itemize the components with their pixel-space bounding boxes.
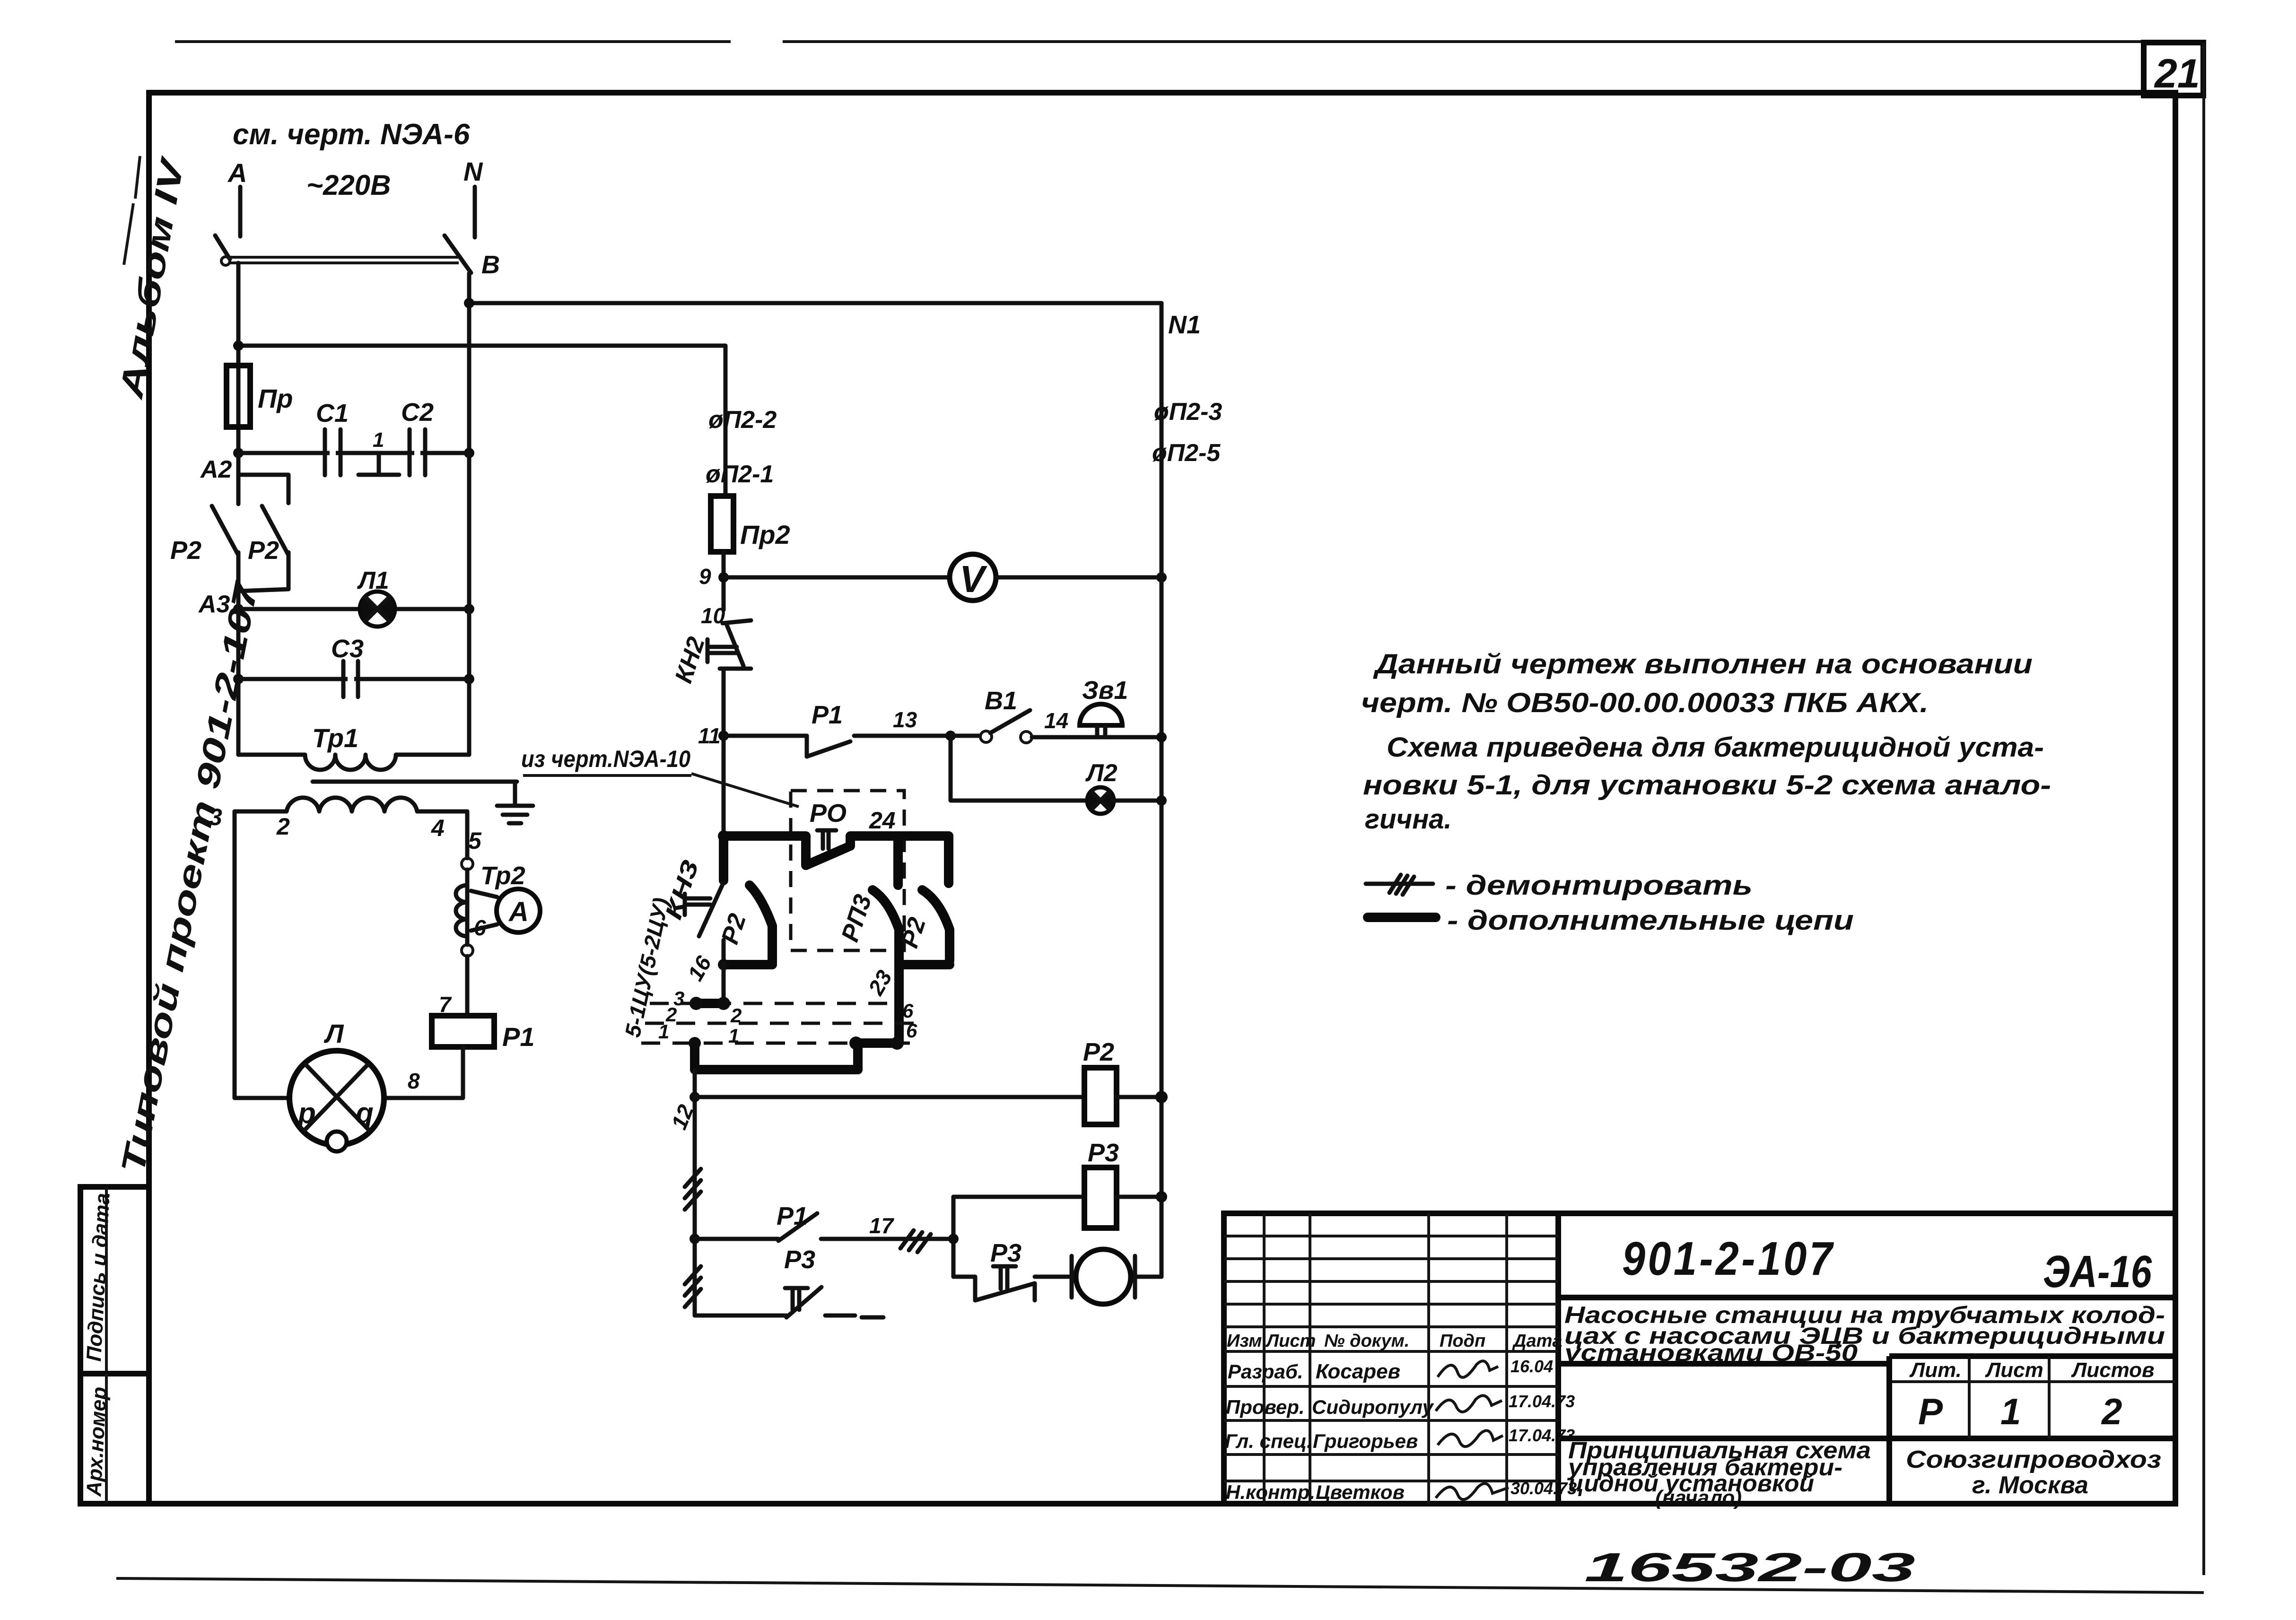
wire row P3 coil — [953, 1195, 1084, 1199]
demontage hatch on wire 17 — [900, 1230, 931, 1252]
svg-text:см. черт. NЭА-6: см. черт. NЭА-6 — [233, 118, 470, 151]
transformer Tr1 primary — [238, 755, 469, 770]
svg-text:9: 9 — [699, 564, 711, 589]
wire bottom left — [235, 1096, 289, 1100]
connector dashed row 3 — [641, 1042, 917, 1045]
legend additional symbol — [1368, 913, 1436, 922]
thick bus left riser — [690, 1043, 699, 1070]
svg-text:Р2: Р2 — [1083, 1038, 1114, 1066]
left table / right part divider — [1555, 1213, 1561, 1504]
contact P2 left — [212, 453, 238, 610]
outer bottom trim line — [116, 1578, 2204, 1593]
svg-text:2: 2 — [730, 1004, 742, 1027]
node dot N-641 — [464, 298, 474, 308]
svg-text:øП2-1: øП2-1 — [706, 461, 774, 488]
svg-text:Сидиропулу: Сидиропулу — [1312, 1396, 1435, 1418]
svg-text:КН2: КН2 — [670, 634, 710, 687]
ground at node 1 — [377, 453, 381, 473]
svg-text:Р1: Р1 — [812, 701, 843, 729]
switch B blade right — [445, 235, 471, 273]
relay coil P3 — [1084, 1167, 1117, 1228]
svg-text:N1: N1 — [1168, 311, 1201, 339]
svg-text:Р3: Р3 — [784, 1245, 815, 1274]
wire secondary left rail — [233, 811, 237, 1098]
switch B hinge circle — [221, 257, 230, 265]
svg-text:Л1: Л1 — [357, 567, 389, 594]
ground at core — [513, 782, 517, 804]
contact PO (thick chain node24 row) — [724, 836, 949, 865]
node dot C3 right — [464, 674, 474, 684]
wire row 12 — [695, 1095, 1084, 1099]
title block outer border — [1224, 1213, 2175, 1504]
wire thick rail 24 to KH3 — [719, 836, 728, 880]
contact P1 lower — [778, 1213, 817, 1241]
svg-text:Р3: Р3 — [990, 1239, 1021, 1267]
svg-text:30.04.73: 30.04.73 — [1510, 1479, 1577, 1498]
node dot 13 — [945, 731, 956, 741]
archive number box — [80, 1374, 149, 1504]
svg-text:А: А — [508, 897, 529, 927]
svg-text:V: V — [960, 558, 987, 600]
main frame border — [149, 93, 2175, 1504]
rule under object name — [1558, 1361, 1889, 1367]
wire row C3 — [238, 677, 469, 681]
svg-text:5: 5 — [468, 827, 482, 854]
contact P3 motor branch — [953, 1277, 1069, 1300]
wire P2 coil to rail — [1117, 1095, 1161, 1099]
wire lamp L2 to rail — [1114, 799, 1161, 803]
svg-text:№ докум.: № докум. — [1324, 1331, 1409, 1351]
capacitor C1 — [325, 429, 340, 475]
svg-text:Пр: Пр — [258, 383, 293, 413]
wire node 9 to voltmeter — [724, 575, 950, 580]
wire row A2 — [238, 451, 469, 455]
wire row A3 — [238, 607, 469, 611]
contact P3 bottom actuator — [785, 1288, 808, 1310]
svg-text:1: 1 — [373, 428, 384, 452]
svg-text:Р1: Р1 — [777, 1202, 808, 1230]
CT top circle — [462, 858, 473, 870]
svg-text:3: 3 — [209, 804, 222, 830]
svg-text:РО: РО — [810, 799, 847, 827]
svg-text:черт. № ОВ50-00.00.00033 ПКБ: черт. № ОВ50-00.00.00033 ПКБ АКХ. — [1361, 688, 1929, 718]
transformer Tr1 secondary — [235, 798, 467, 811]
wire rail 16 to connector — [722, 965, 726, 1003]
CT bar — [465, 870, 470, 945]
svg-text:4: 4 — [431, 815, 445, 841]
connector dashed row 1 — [645, 1022, 916, 1025]
svg-text:11: 11 — [698, 723, 721, 748]
svg-text:Цветков: Цветков — [1316, 1481, 1405, 1503]
svg-text:14: 14 — [1044, 708, 1068, 733]
contact P2 parallel (thick) — [724, 885, 772, 965]
motor — [1076, 1249, 1131, 1304]
svg-text:Дата: Дата — [1512, 1331, 1563, 1351]
connector dashed row 2 — [650, 1002, 899, 1005]
svg-text:6: 6 — [902, 1000, 914, 1022]
svg-text:2: 2 — [2101, 1391, 2122, 1432]
svg-text:Лит.: Лит. — [1909, 1359, 1962, 1382]
node dot P2-rail — [1155, 1091, 1168, 1103]
wire A2 branch to second contact — [238, 475, 288, 503]
wire CT to relay — [465, 956, 470, 1016]
svg-text:2: 2 — [276, 813, 290, 840]
svg-text:Тр2: Тр2 — [480, 862, 525, 890]
svg-text:Гл. спец.: Гл. спец. — [1225, 1430, 1312, 1452]
node dot bell-rail — [1156, 732, 1167, 742]
button KH3 actuator — [685, 894, 710, 915]
node dot A3-right — [464, 604, 474, 614]
svg-text:новки 5-1, для установки 5-2 с: новки 5-1, для установки 5-2 схема анало… — [1363, 770, 2051, 801]
wire node 11 row — [724, 734, 807, 738]
wire row 17 right — [821, 1237, 953, 1241]
wire riser to P3 coil row — [952, 1197, 956, 1277]
terminal stub N — [473, 187, 477, 237]
svg-text:С1: С1 — [316, 399, 349, 427]
wire KH2 rail to node 24 — [722, 736, 726, 836]
svg-text:~220В: ~220В — [306, 169, 391, 201]
album underline — [124, 156, 140, 265]
node dot A2 — [233, 448, 244, 458]
svg-text:А: А — [227, 158, 247, 188]
ammeter connecting lines — [471, 891, 497, 931]
svg-text:Р2: Р2 — [716, 910, 751, 947]
svg-text:13: 13 — [893, 707, 917, 732]
svg-text:Р2: Р2 — [248, 536, 279, 565]
svg-text:Типовой проект 901-2-107: Типовой проект 901-2-107 — [114, 578, 265, 1176]
node dot 17-row — [690, 1234, 700, 1244]
left table verticals — [1264, 1213, 1507, 1504]
svg-text:(начало): (начало) — [1655, 1486, 1742, 1509]
svg-text:Лист: Лист — [1265, 1331, 1316, 1351]
svg-text:Р2: Р2 — [170, 536, 201, 565]
wire secondary right down to CT — [465, 811, 470, 858]
svg-text:Р: Р — [1918, 1391, 1943, 1432]
relay coil P2 — [1084, 1068, 1117, 1124]
svg-text:24: 24 — [869, 807, 896, 834]
wire left rail mid — [236, 609, 241, 755]
svg-text:16532-03: 16532-03 — [1584, 1545, 1915, 1590]
svg-text:23: 23 — [863, 966, 897, 1000]
demontage dashes — [825, 1315, 883, 1317]
left table thin rows — [1224, 1236, 1558, 1327]
svg-text:С2: С2 — [401, 398, 434, 427]
fuse Pr — [227, 366, 250, 427]
svg-text:Тр1: Тр1 — [312, 723, 358, 753]
svg-text:Л2: Л2 — [1085, 759, 1117, 787]
lamp L (bactericidal) — [289, 1051, 384, 1151]
contact P3 motor actuator — [993, 1266, 1016, 1289]
node dot P3-rail — [1156, 1191, 1167, 1202]
svg-text:16.04: 16.04 — [1510, 1357, 1553, 1376]
transformer Tr1 core — [313, 780, 517, 784]
transformer Tr2 winding — [456, 885, 467, 936]
switch B1 — [951, 734, 980, 738]
node dot 9-rail-right — [1156, 572, 1167, 583]
wire neutral rail upper — [467, 273, 471, 453]
svg-text:ЭА-16: ЭА-16 — [2043, 1246, 2152, 1297]
svg-text:В1: В1 — [985, 687, 1017, 715]
CT bottom circle — [462, 945, 473, 956]
svg-text:Изм: Изм — [1227, 1331, 1262, 1351]
outer top trim line — [175, 40, 2144, 43]
svg-text:Лист: Лист — [1985, 1359, 2043, 1382]
svg-text:6: 6 — [906, 1019, 917, 1042]
node dot A2-right — [464, 448, 474, 458]
ammeter A — [497, 889, 540, 932]
button KH2 contact — [720, 620, 751, 736]
svg-text:Данный чертеж выполнен на: Данный чертеж выполнен на основании — [1372, 649, 2033, 679]
svg-text:из черт.NЭА-10: из черт.NЭА-10 — [521, 746, 690, 772]
contact P3 bottom — [786, 1287, 821, 1317]
svg-text:1: 1 — [2000, 1391, 2021, 1432]
svg-text:21: 21 — [2154, 51, 2200, 96]
wire voltmeter to N1 rail — [996, 575, 1161, 580]
svg-text:Разраб.: Разраб. — [1228, 1360, 1303, 1383]
fuse Pr2 — [711, 496, 733, 552]
svg-text:øП2-3: øП2-3 — [1154, 398, 1222, 426]
rule under project number — [1558, 1295, 2175, 1300]
wire P3 coil to rail — [1117, 1195, 1161, 1199]
svg-text:16: 16 — [683, 951, 716, 985]
legend demount symbol — [1366, 882, 1433, 886]
wire relay to bottom — [384, 1047, 463, 1098]
thick bus — [695, 1065, 858, 1074]
svg-text:Косарев: Косарев — [1316, 1360, 1400, 1383]
svg-text:г. Москва: г. Москва — [1972, 1472, 2088, 1499]
lit-list box lines — [1889, 1353, 2175, 1359]
wire branch to lamp L2 — [951, 736, 1088, 801]
wire to N1 — [469, 301, 1161, 305]
svg-text:Л: Л — [323, 1019, 344, 1048]
node dot 16 — [718, 959, 729, 970]
svg-text:N: N — [463, 157, 483, 186]
contact P2 right — [238, 506, 288, 591]
lamp L2 — [1087, 787, 1114, 814]
node dot 11 — [718, 731, 729, 741]
contact PO actuator — [817, 830, 836, 849]
outer right trim line — [2202, 43, 2205, 1575]
voltmeter V — [950, 554, 996, 601]
svg-text:А2: А2 — [200, 456, 232, 483]
wire P2-2 drop rail — [724, 346, 728, 496]
sheet number box — [2144, 43, 2203, 96]
svg-text:А3: А3 — [198, 591, 230, 618]
svg-text:С3: С3 — [331, 635, 364, 663]
svg-text:17: 17 — [869, 1213, 895, 1238]
wire N1 rail — [1160, 303, 1164, 1277]
button KH3 contact — [699, 882, 724, 965]
svg-text:17.04.73: 17.04.73 — [1509, 1426, 1575, 1445]
node dot 9 — [718, 572, 729, 583]
svg-text:17.04.73: 17.04.73 — [1509, 1392, 1575, 1411]
lamp L1 — [360, 592, 395, 627]
switch B blade left — [215, 235, 230, 259]
demontage hatch on left rail upper — [685, 1169, 701, 1210]
dashed box PO — [791, 791, 904, 950]
wire motor to rail — [1137, 1275, 1161, 1279]
svg-text:8: 8 — [408, 1069, 420, 1093]
signature-date box — [80, 1187, 149, 1374]
wire bottom P3 row — [695, 1314, 786, 1318]
svg-text:øП2-2: øП2-2 — [708, 406, 777, 434]
svg-text:Зв1: Зв1 — [1082, 676, 1128, 705]
svg-text:гична.: гична. — [1365, 804, 1452, 835]
svg-text:q: q — [356, 1097, 374, 1130]
svg-text:Союзгипроводхоз: Союзгипроводхоз — [1906, 1446, 2161, 1473]
contact RP3 (thick) — [873, 836, 899, 1043]
node dot A3 — [233, 604, 244, 614]
node dot L2-rail — [1156, 795, 1167, 806]
svg-text:РП3: РП3 — [836, 891, 877, 945]
wire phase rail upper — [236, 263, 241, 453]
svg-text:Пр2: Пр2 — [740, 520, 790, 549]
svg-text:Р3: Р3 — [1088, 1139, 1119, 1167]
wire fuse to node 9 — [722, 552, 726, 610]
svg-text:Схема приведена для бактери: Схема приведена для бактерицидной уста- — [1387, 732, 2044, 763]
jumper row3 — [856, 1038, 897, 1048]
svg-text:øП2-5: øП2-5 — [1152, 439, 1221, 467]
svg-text:- демонтировать: - демонтировать — [1445, 870, 1753, 901]
svg-text:Альбом IV: Альбом IV — [112, 153, 191, 402]
node dot 24-rail — [718, 830, 729, 842]
svg-text:Подп: Подп — [1440, 1331, 1485, 1351]
svg-text:Листов: Листов — [2071, 1359, 2155, 1382]
terminal stub A — [238, 187, 243, 236]
left table header row line — [1224, 1350, 1558, 1353]
contact P2 right (thick) — [903, 890, 950, 965]
bell Zv1 — [1080, 704, 1122, 725]
wire row 17 left — [695, 1237, 778, 1241]
thick link jumper to bus — [853, 1043, 863, 1070]
thick hook right of 24 — [944, 836, 953, 883]
svg-text:Р1: Р1 — [502, 1022, 535, 1052]
capacitor C3 — [343, 661, 358, 697]
switch B linkage double line — [230, 257, 459, 263]
left table signature rows — [1224, 1386, 1558, 1481]
demontage hatch on left rail lower — [685, 1266, 701, 1307]
svg-text:3: 3 — [673, 987, 684, 1010]
node dot C3 left — [233, 674, 244, 684]
wire right rail mid — [467, 453, 471, 755]
wire left lower rail — [693, 1070, 697, 1315]
node dot 12 — [690, 1092, 700, 1102]
jumper row2 — [696, 999, 724, 1008]
svg-text:Провер.: Провер. — [1226, 1396, 1305, 1418]
contact P1 — [807, 736, 951, 757]
svg-text:Подпись и дата: Подпись и дата — [82, 1193, 114, 1362]
svg-text:- дополнительные цепи: - дополнительные цепи — [1447, 905, 1854, 936]
svg-text:р: р — [297, 1097, 316, 1130]
button KH2 actuator — [707, 639, 737, 662]
svg-text:Н.контр.: Н.контр. — [1226, 1481, 1315, 1503]
node dot 17 right — [948, 1234, 959, 1244]
svg-text:901-2-107: 901-2-107 — [1622, 1232, 1835, 1285]
svg-text:1: 1 — [728, 1025, 739, 1047]
svg-text:Григорьев: Григорьев — [1313, 1430, 1418, 1452]
relay coil P1 — [432, 1016, 494, 1047]
capacitor C2 — [410, 429, 425, 475]
node dot A-731 — [233, 340, 244, 351]
svg-text:В: В — [481, 251, 500, 279]
wire row to P2-2 drop — [238, 344, 725, 348]
wire 14 to bell — [1032, 735, 1161, 740]
